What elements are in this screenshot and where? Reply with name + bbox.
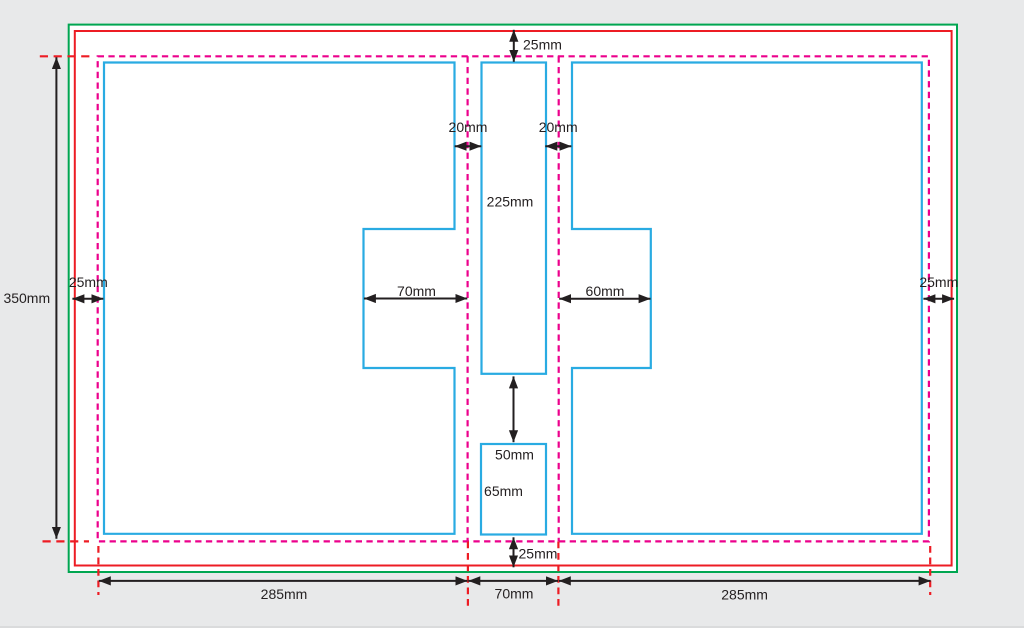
svg-text:70mm: 70mm	[495, 586, 534, 602]
dim arrow left 25mm	[72, 298, 103, 300]
svg-text:20mm: 20mm	[449, 119, 488, 135]
dim arrow 70mm flap	[364, 298, 467, 300]
dim arrow bottom 285mm left	[99, 580, 468, 582]
red dashed extension vertical x=930	[929, 546, 931, 595]
svg-text:25mm: 25mm	[523, 37, 562, 53]
cyan spine rectangle	[482, 63, 547, 374]
magenta fold line right	[558, 56, 560, 541]
dim arrow 60mm flap	[559, 298, 650, 300]
red dashed extension bottom-left	[43, 540, 90, 542]
cyan bottom tab rectangle	[481, 444, 546, 535]
svg-text:225mm: 225mm	[487, 193, 534, 209]
dim arrow right 25mm	[923, 298, 954, 300]
svg-text:285mm: 285mm	[721, 587, 768, 603]
cyan right panel with notch	[572, 63, 922, 534]
magenta safe-area dashed rectangle	[98, 56, 929, 541]
green bleed rectangle (sheet)	[69, 25, 957, 572]
svg-text:50mm: 50mm	[495, 447, 534, 463]
svg-text:70mm: 70mm	[397, 283, 436, 299]
dim arrow bottom 285mm right	[559, 580, 931, 582]
svg-text:25mm: 25mm	[919, 274, 958, 290]
cyan left panel with notch	[104, 63, 455, 534]
red dashed extension vertical x=468	[467, 542, 469, 610]
red dashed extension vertical x=558	[557, 542, 559, 610]
svg-text:65mm: 65mm	[484, 483, 523, 499]
svg-text:25mm: 25mm	[519, 546, 558, 562]
dim arrow 20mm left	[455, 145, 482, 147]
dim arrow bottom 70mm	[468, 580, 558, 582]
dim arrow 350mm height	[55, 57, 57, 539]
dim arrow 50mm gap	[513, 376, 515, 442]
dim arrow top 25mm	[513, 30, 515, 62]
red trim rectangle	[75, 31, 952, 566]
magenta fold line left	[467, 56, 469, 541]
dim arrow bottom 25mm	[513, 537, 515, 567]
dim arrow 20mm right	[545, 145, 571, 147]
svg-text:20mm: 20mm	[539, 119, 578, 135]
svg-text:25mm: 25mm	[69, 274, 108, 290]
svg-text:350mm: 350mm	[3, 290, 50, 306]
red dashed extension top-left	[40, 55, 93, 57]
red dashed extension vertical x=98	[97, 546, 99, 595]
svg-text:285mm: 285mm	[261, 586, 308, 602]
svg-text:60mm: 60mm	[586, 283, 625, 299]
